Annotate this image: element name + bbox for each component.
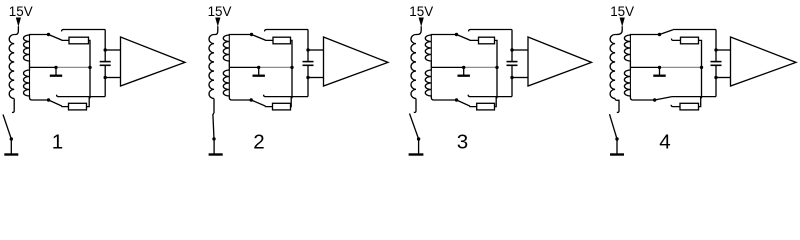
wire from R2b up to bottom direct wire (panel 2) <box>290 97 293 107</box>
coupling line lower segment (panel 3) <box>511 66 513 97</box>
wire from supply arrow to primary (panel 3) <box>416 26 421 34</box>
centre-tap ground symbol (panel 4) <box>659 67 661 75</box>
wire from supply arrow to primary (panel 4) <box>615 26 622 34</box>
svg-text:15V: 15V <box>409 4 433 19</box>
transformer primary winding L1 (panel 4) <box>610 35 615 99</box>
transformer secondary lower winding (panel 2) <box>223 67 251 100</box>
transformer secondary upper winding (panel 1) <box>24 35 49 68</box>
wire from supply arrow to primary (panel 2) <box>214 26 218 34</box>
primary bottom lead (panel 2) <box>213 99 215 114</box>
resistor R2b (bottom) (panel 2) <box>273 103 291 110</box>
ground symbol (panel 4) <box>610 153 624 155</box>
wire from R1a to tap node (panel 1) <box>89 40 91 98</box>
resistor R2a (top) (panel 2) <box>273 37 291 44</box>
amplifier U4 (panel 4) <box>731 37 797 86</box>
capacitor C2 (panel 2) <box>303 61 314 63</box>
bottom switch blade (down onto resistor) (panel 1) <box>49 100 69 107</box>
centre-tap wire (grey segment) (panel 2) <box>259 66 292 68</box>
bottom direct wire (panel 1) <box>58 96 105 98</box>
wire to amp + input (panel 2) <box>308 49 324 51</box>
wire from supply arrow to primary (panel 1) <box>14 26 18 34</box>
junction dot upper amp input (panel 1) <box>104 48 107 51</box>
supply arrow (panel 3) <box>419 18 424 27</box>
junction dot upper amp input (panel 3) <box>510 48 513 51</box>
capacitor C3 (panel 3) <box>507 61 518 63</box>
centre-tap ground junction dot (panel 2) <box>257 66 260 69</box>
top direct wire (panel 4) <box>673 29 716 31</box>
transformer primary winding L1 (panel 3) <box>411 35 416 99</box>
supply arrow (panel 1) <box>16 18 21 27</box>
top selector switch S3a pivot dot (panel 3) <box>455 33 458 36</box>
resistor R4b (bottom) (panel 4) <box>680 103 699 110</box>
svg-text:2: 2 <box>253 130 264 153</box>
wire from R3b up to bottom direct wire (panel 3) <box>495 97 497 107</box>
primary bottom lead / open contact stub (panel 1) <box>12 99 14 113</box>
wire to amp - input (panel 2) <box>308 77 324 79</box>
top resistor open lead hook (panel 4) <box>671 39 680 41</box>
transformer secondary upper winding (panel 3) <box>425 35 456 68</box>
svg-text:1: 1 <box>52 130 63 153</box>
wire to amp + input (panel 4) <box>716 49 731 51</box>
supply arrow (panel 4) <box>620 18 625 27</box>
bottom direct-wire open contact hook (panel 1) <box>57 95 59 97</box>
resistor R3a (top) (panel 3) <box>479 37 495 44</box>
top switch blade (down onto resistor) (panel 1) <box>49 35 70 41</box>
primary return switch blade (open) (panel 3) <box>410 114 419 140</box>
primary bottom lead / open contact stub (panel 4) <box>615 99 619 113</box>
centre-tap ground junction dot (panel 4) <box>658 66 661 69</box>
bottom direct wire (panel 3) <box>470 96 512 98</box>
resistor R3b (bottom) (panel 3) <box>477 103 495 110</box>
capacitor C1 (panel 1) <box>100 61 111 63</box>
primary bottom lead / open contact stub (panel 3) <box>414 99 416 113</box>
centre-tap wire (black segment) (panel 1) <box>30 66 57 68</box>
ground symbol (panel 3) <box>409 153 424 155</box>
coupling line lower segment (panel 4) <box>715 66 717 97</box>
top direct wire (panel 1) <box>63 29 105 31</box>
transformer secondary upper winding (panel 4) <box>624 35 659 68</box>
primary return switch pivot dot (panel 1) <box>10 137 13 140</box>
junction dot lower amp input (panel 1) <box>104 76 107 79</box>
top direct wire (panel 2) <box>266 29 308 31</box>
bottom selector switch S3b pivot dot (panel 3) <box>455 98 458 101</box>
coupling line upper segment (panel 3) <box>511 30 513 62</box>
coupling line upper segment (panel 2) <box>307 30 309 62</box>
bottom switch blade (down onto resistor) (panel 3) <box>457 100 477 107</box>
centre-tap wire (black segment) (panel 3) <box>431 66 463 68</box>
wire to amp + input (panel 1) <box>105 49 120 51</box>
tap node junction dot (panel 1) <box>88 66 91 69</box>
wire from switch to ground (panel 2) <box>213 139 215 154</box>
transformer secondary upper winding (panel 2) <box>223 35 251 68</box>
wire from R4b up to bottom direct wire (panel 4) <box>699 97 701 107</box>
resistor R4a (top) (panel 4) <box>681 37 699 44</box>
transformer secondary lower winding (panel 1) <box>24 67 49 100</box>
bottom selector switch S4b pivot dot (panel 4) <box>653 98 656 101</box>
junction dot lower amp input (panel 3) <box>510 76 513 79</box>
top selector switch S1a pivot dot (panel 1) <box>47 33 50 36</box>
transformer primary winding L1 (panel 2) <box>209 35 214 99</box>
primary return switch pivot dot (panel 4) <box>615 137 618 140</box>
centre-tap ground junction dot (panel 1) <box>54 66 57 69</box>
top direct-wire open contact hook (panel 1) <box>62 30 64 32</box>
coupling line upper segment (panel 4) <box>715 30 717 62</box>
wire to amp - input (panel 1) <box>105 77 120 79</box>
centre-tap wire (grey segment) (panel 3) <box>464 66 497 68</box>
wire from R3a to tap node (panel 3) <box>495 40 498 98</box>
tap node junction dot (panel 4) <box>700 66 703 69</box>
coupling line lower segment (panel 1) <box>104 66 106 97</box>
bottom switch blade (down onto resistor) (panel 2) <box>251 100 272 107</box>
amplifier U1 (panel 1) <box>121 37 186 86</box>
wire from R2a to tap node (panel 2) <box>291 40 293 98</box>
amplifier U3 (panel 3) <box>528 37 592 86</box>
junction dot lower amp input (panel 2) <box>306 76 309 79</box>
centre-tap ground symbol (panel 1) <box>55 67 57 75</box>
svg-text:4: 4 <box>659 130 670 153</box>
centre-tap wire (grey segment) (panel 1) <box>56 66 90 68</box>
top switch blade (up position, direct wire) (panel 4) <box>660 30 674 35</box>
centre-tap wire (black segment) (panel 2) <box>229 66 258 68</box>
bottom selector switch S2b pivot dot (panel 2) <box>250 98 253 101</box>
bottom direct-wire open contact hook (panel 3) <box>468 95 470 97</box>
wire from R1b up to bottom direct wire (panel 1) <box>87 97 90 107</box>
ground symbol (panel 1) <box>4 153 18 155</box>
tap node junction dot (panel 2) <box>290 66 293 69</box>
coupling line upper segment (panel 1) <box>104 30 106 62</box>
transformer secondary lower winding (panel 3) <box>425 67 456 100</box>
bottom direct-wire open contact hook (panel 2) <box>264 95 266 97</box>
resistor R1b (bottom) (panel 1) <box>69 103 87 110</box>
svg-text:15V: 15V <box>208 4 232 19</box>
bottom direct wire (panel 2) <box>265 96 308 98</box>
wire to amp + input (panel 3) <box>512 49 528 51</box>
supply arrow (panel 2) <box>215 18 220 27</box>
top selector switch S4a pivot dot (panel 4) <box>658 33 661 36</box>
top direct-wire open contact hook (panel 3) <box>469 30 471 32</box>
primary return switch pivot dot (panel 3) <box>417 137 420 140</box>
primary return switch pivot dot (panel 2) <box>212 137 215 140</box>
amplifier U2 (panel 2) <box>324 37 389 86</box>
centre-tap ground junction dot (panel 3) <box>462 66 465 69</box>
svg-text:15V: 15V <box>9 4 33 19</box>
resistor R1a (top) (panel 1) <box>69 37 89 44</box>
bottom switch blade (up position) (panel 4) <box>655 97 672 100</box>
centre-tap wire (grey segment) (panel 4) <box>660 66 702 68</box>
centre-tap wire (black segment) (panel 4) <box>630 66 659 68</box>
wire from R4a to tap node (panel 4) <box>699 40 702 98</box>
wire to amp - input (panel 4) <box>716 77 731 79</box>
top direct-wire open contact hook (panel 2) <box>265 30 267 32</box>
transformer primary winding L1 (panel 1) <box>9 35 14 99</box>
primary return switch (closed) (panel 2) <box>213 113 214 139</box>
wire to amp - input (panel 3) <box>512 77 528 79</box>
capacitor C4 (panel 4) <box>711 61 722 63</box>
bottom selector switch S1b pivot dot (panel 1) <box>47 98 50 101</box>
top direct wire (panel 3) <box>470 29 512 31</box>
junction dot upper amp input (panel 2) <box>306 48 309 51</box>
primary return switch blade (open) (panel 4) <box>610 114 618 139</box>
centre-tap ground symbol (panel 3) <box>463 67 465 75</box>
bottom direct wire (panel 4) <box>672 96 716 98</box>
top selector switch S2a pivot dot (panel 2) <box>250 33 253 36</box>
transformer secondary lower winding (panel 4) <box>624 67 654 100</box>
primary return switch blade (open) (panel 1) <box>3 115 11 140</box>
coupling line lower segment (panel 2) <box>307 66 309 97</box>
bottom resistor open lead hook (panel 4) <box>671 105 680 107</box>
wire from switch to ground (panel 1) <box>10 139 12 154</box>
svg-text:15V: 15V <box>610 4 634 19</box>
centre-tap ground symbol (panel 2) <box>258 67 260 75</box>
junction dot upper amp input (panel 4) <box>714 48 717 51</box>
tap node junction dot (panel 3) <box>495 66 498 69</box>
wire from switch to ground (panel 4) <box>616 139 618 154</box>
top switch blade (down onto resistor) (panel 3) <box>457 35 479 41</box>
junction dot lower amp input (panel 4) <box>714 76 717 79</box>
top switch blade (down onto resistor) (panel 2) <box>252 35 274 41</box>
svg-text:3: 3 <box>457 130 468 153</box>
wire from switch to ground (panel 3) <box>418 139 420 154</box>
ground symbol (panel 2) <box>209 153 223 155</box>
